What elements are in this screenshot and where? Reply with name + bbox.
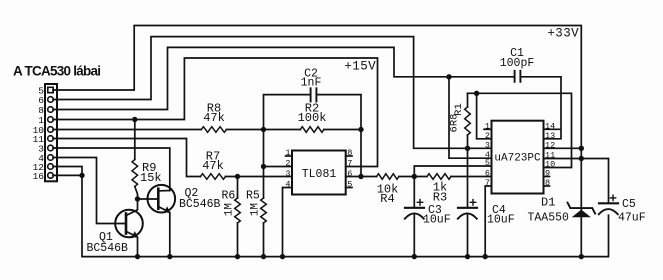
svg-text:BC546B: BC546B (87, 242, 129, 255)
svg-text:C5: C5 (622, 198, 636, 211)
svg-text:R6: R6 (222, 190, 236, 203)
wire: pin6 row via top line 2 down to uA723 pin3 row (53, 37, 492, 149)
node: R4/R3/C3/uA723 pin5 junction (412, 174, 417, 179)
wire: R7 right to TL081 pin3 (226, 176, 293, 178)
diode D1 TAA550 (zener) (528, 196, 596, 225)
node: loop / pin2 column junction (474, 91, 479, 96)
svg-text:1M: 1M (224, 203, 236, 216)
wire: pin12 row to ground column (53, 167, 82, 257)
node: pin12/+33V rail junction (579, 146, 584, 151)
wire: junction up to uA723 pin5 (414, 166, 491, 177)
resistor R5 1M (246, 190, 266, 224)
node: uA723 pin7 / ground rail (483, 254, 488, 259)
svg-text:3: 3 (485, 140, 490, 150)
wire: uA723 pin11 row to C5 column (544, 159, 609, 203)
wire: uA723 pin9 stub (544, 176, 550, 178)
svg-text:100pF: 100pF (500, 57, 535, 70)
node: R7/R6/pin3 junction (235, 174, 240, 179)
svg-text:+33V: +33V (547, 27, 579, 41)
TL081 pin numbers 1,2,3,4 left and 8,7,6,5 right (285, 148, 352, 190)
op-amp U2 TL081 (292, 151, 346, 195)
wire: C2 loop right side (317, 95, 361, 130)
node: C1/pin4 junction (446, 74, 451, 79)
wire: C2 loop left side (264, 95, 310, 130)
wire: R6 bottom to ground rail (237, 223, 239, 257)
wire: uA723 pin7 to ground rail (485, 186, 491, 257)
transistor Q2 BC546B (148, 185, 221, 257)
node: TL081 pin4 / ground rail (280, 254, 285, 259)
svg-text:R3: R3 (433, 191, 447, 205)
wire: uA723 pin12 stub to +33V rail (544, 147, 582, 149)
node: R2/C2 right junction (358, 127, 363, 132)
wire: R4 to R3 (399, 176, 427, 178)
regulator U1 uA723PC (492, 121, 544, 194)
svg-text:47uF: 47uF (618, 212, 646, 225)
wire: output column down to TL081 pin6 (360, 130, 362, 177)
svg-text:D1: D1 (541, 196, 555, 210)
capacitor C2 1nF (301, 68, 322, 102)
wire: pin8 row via top line 3 to C1 left plate (53, 47, 514, 109)
svg-text:TL081: TL081 (302, 168, 337, 181)
svg-text:1M: 1M (250, 203, 262, 216)
connector pin labels 5,6,8,1,10,11,3,4,12,16 (33, 85, 45, 181)
wire: pin3 row down to Q2 collector (53, 148, 170, 191)
svg-text:BC546B: BC546B (179, 198, 221, 211)
resistor R2 100k (298, 102, 327, 133)
wire: R5 bottom to ground rail (263, 223, 265, 257)
node: D1 / ground rail (579, 254, 584, 259)
wire: pin16 row joins ground column (53, 174, 82, 176)
wire: R3 right to uA723 pin6 (451, 176, 492, 178)
wire: pin2 column from R8/R2 junction down to TL081 pin2 and R5 (263, 130, 265, 199)
svg-text:47k: 47k (203, 111, 225, 125)
connector J1 (TCA530 pins) (45, 84, 57, 181)
node: R1 bottom / uA723 pin3 / C4 junction (465, 146, 470, 151)
wire: loop from R1 top across to uA723 pin10 (468, 93, 572, 167)
node: R6 / ground rail (235, 254, 240, 259)
title text "A TCA530 labai" (13, 64, 100, 79)
svg-text:uA723PC: uA723PC (494, 153, 541, 165)
capacitor C1 100pF (500, 47, 535, 82)
transistor Q1 BC546B (87, 199, 143, 257)
node: R5 / ground rail (261, 254, 266, 259)
node: R9/Q1 collector/Q2 base junction (135, 196, 140, 201)
resistor R9 15k (132, 120, 162, 200)
wire: TL081 pin4 to ground rail (283, 188, 293, 257)
wire: pin4 row to Q1 base (53, 158, 126, 224)
wire: TL081 pin8 stub (346, 155, 352, 157)
wire: TL081 pin1 stub (286, 155, 293, 157)
node: Q1 emitter / ground rail (135, 254, 140, 259)
wire: C1 row branch down to uA723 pin4 (449, 77, 492, 158)
capacitor C5 47uF (599, 195, 646, 224)
wire: R8 to R2 junction (226, 129, 300, 131)
node: pin11/+33V rail junction (579, 156, 584, 161)
wire: loop down to uA723 pin2 (477, 93, 492, 139)
node: C3 / ground rail (412, 254, 417, 259)
node: Q2 emitter / ground rail (167, 254, 172, 259)
wire: TL081 pin5 stub (346, 187, 352, 189)
wire: uA723 pin8 stub (544, 185, 550, 187)
wire: TL081 pin6 output to R4 (346, 176, 377, 178)
svg-text:16: 16 (33, 171, 45, 182)
+15V label (344, 60, 376, 74)
wire: C4 column from pin3 node down (467, 148, 469, 207)
node: pin16/ground junction (79, 173, 84, 178)
svg-text:10uF: 10uF (423, 214, 451, 227)
capacitor C4 10uF (458, 200, 515, 257)
svg-text:15k: 15k (140, 171, 162, 185)
svg-text:6R8: 6R8 (449, 114, 461, 133)
+33V label (547, 27, 579, 41)
capacitor C3 10uF (405, 177, 451, 257)
wire: R2 right to output column (324, 129, 361, 131)
svg-text:2: 2 (285, 159, 290, 169)
ground rail along bottom (82, 215, 609, 256)
svg-text:100k: 100k (298, 111, 327, 125)
svg-text:TAA550: TAA550 (528, 212, 570, 225)
wire: TL081 pin2 stub (264, 166, 293, 168)
resistor R8 47k (201, 102, 226, 133)
wire: pin1 row via top line 4 (+15V) down to TL081 pin7 (53, 58, 378, 167)
resistor R4 10k (377, 174, 399, 206)
svg-text:7: 7 (347, 159, 352, 169)
wire: uA723 pin1 stub (484, 128, 492, 130)
svg-text:R4: R4 (380, 192, 394, 206)
svg-text:6: 6 (485, 169, 490, 179)
node: C4 / ground rail (465, 254, 470, 259)
svg-text:10uF: 10uF (487, 214, 515, 227)
svg-text:5: 5 (485, 158, 490, 168)
wire: C1 right plate down to uA723 pin13 (521, 77, 561, 139)
wire: pin11 row down to R7 (53, 139, 201, 177)
node: R8/R2/C2/TL081 pin2 junction (261, 127, 266, 132)
svg-text:A TCA530 lábai: A TCA530 lábai (13, 64, 100, 79)
wire: Q2 base wire (138, 198, 159, 200)
svg-text:R5: R5 (246, 190, 260, 203)
wire: pin5 row to +33V rail (top line 1) and rail down right side (53, 26, 581, 257)
resistor R6 1M (222, 177, 241, 224)
node: TL081 pin2 junction (261, 164, 266, 169)
node: pin6/output column junction (358, 174, 363, 179)
svg-text:47k: 47k (202, 159, 224, 173)
svg-text:6: 6 (347, 169, 352, 179)
node: R9 top junction on pin1 row (132, 117, 137, 122)
resistor R3 1k (427, 174, 451, 205)
resistor R7 47k (201, 150, 226, 180)
wire: uA723 pin14 stub (NC) (544, 128, 560, 130)
resistor R1 6R8 (449, 93, 471, 148)
wire: pin10 row to R8 (53, 129, 201, 131)
svg-text:+15V: +15V (344, 60, 376, 74)
uA723 pin numbers 1-7 left, 14-8 right (485, 121, 555, 188)
svg-text:3: 3 (285, 169, 290, 179)
svg-text:1nF: 1nF (301, 77, 322, 90)
